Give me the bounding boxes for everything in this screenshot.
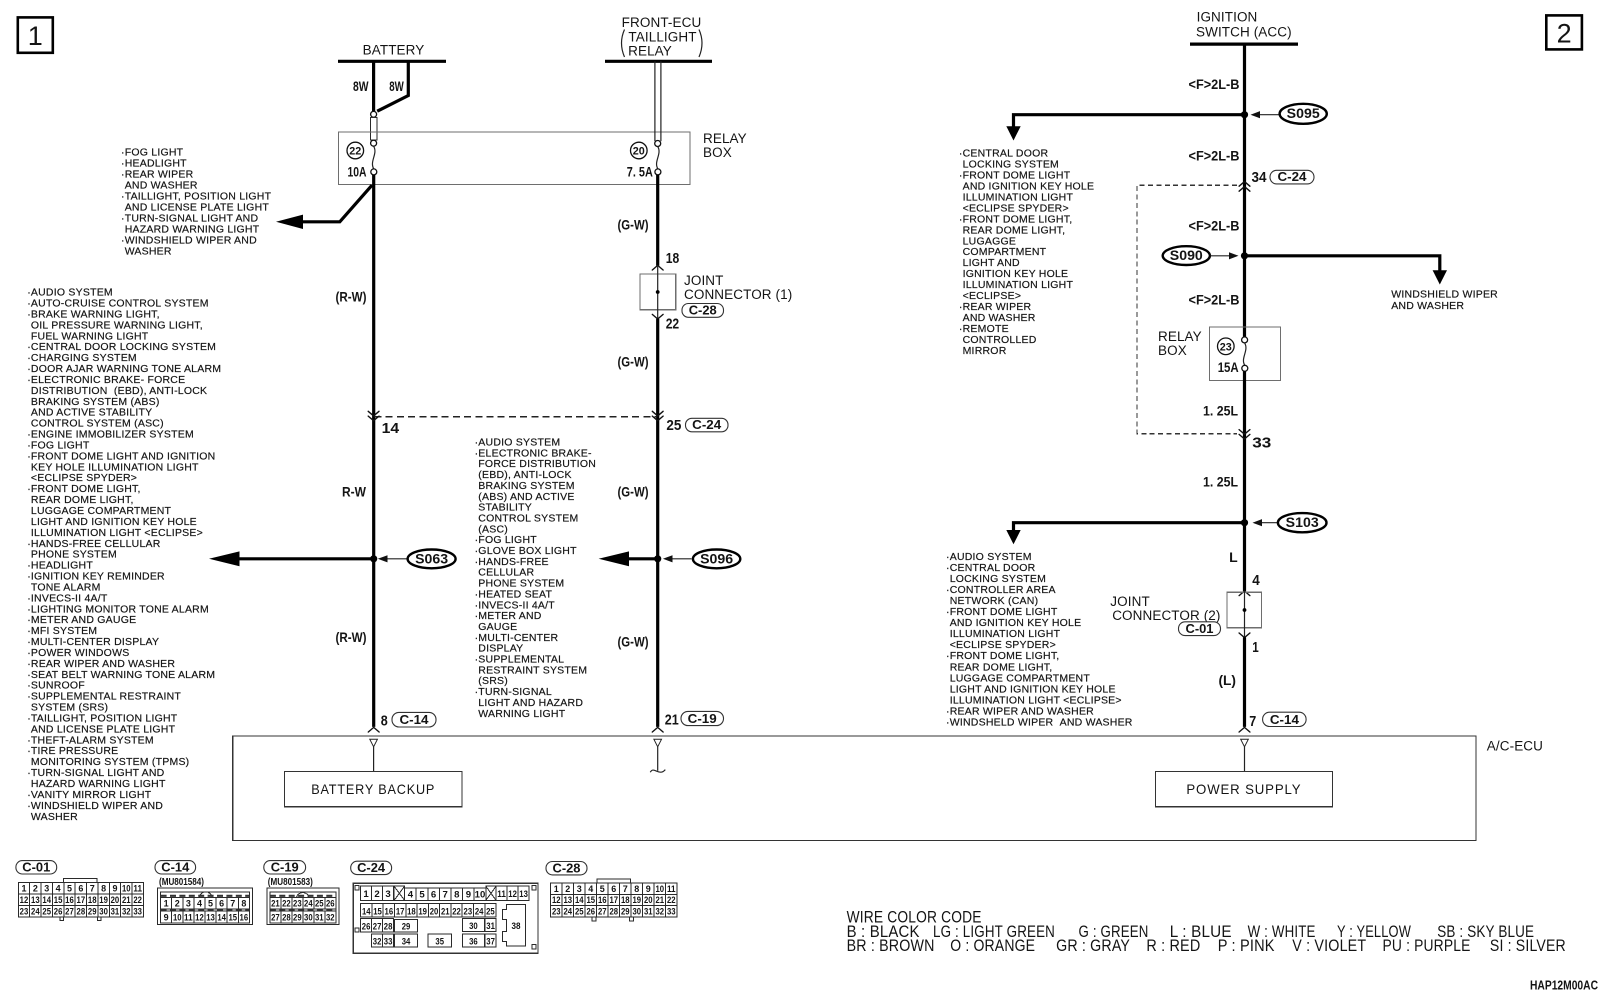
svg-text:14: 14	[382, 421, 400, 437]
wire battery drop right diagonal	[377, 61, 408, 111]
node splice S095 junction dot	[1241, 111, 1248, 118]
svg-text:7. 5A: 7. 5A	[627, 163, 653, 179]
svg-text:5: 5	[419, 889, 425, 900]
svg-text:23: 23	[1220, 341, 1232, 353]
svg-text:BATTERY: BATTERY	[363, 42, 425, 57]
svg-text:1: 1	[363, 889, 369, 900]
svg-text:RELAY: RELAY	[703, 131, 747, 146]
svg-text:21: 21	[271, 898, 280, 909]
wire 2L-B ignition vertical upper	[1243, 44, 1246, 339]
svg-text:30: 30	[304, 913, 313, 924]
svg-text:21: 21	[665, 712, 679, 728]
svg-text:29: 29	[293, 913, 302, 924]
svg-text:SI : SILVER: SI : SILVER	[1490, 937, 1566, 955]
svg-text:IGNITION: IGNITION	[1197, 10, 1258, 25]
svg-text:8: 8	[101, 884, 107, 895]
dashed harness boundary line	[375, 416, 657, 418]
svg-text:·WINDSHELD WIPER AND WASHER: ·WINDSHELD WIPER AND WASHER	[946, 717, 1133, 729]
svg-text:L: L	[1229, 549, 1238, 565]
svg-text:20: 20	[111, 895, 120, 906]
svg-text:23: 23	[293, 898, 302, 909]
svg-text:8: 8	[634, 884, 640, 895]
svg-text:(G-W): (G-W)	[618, 634, 649, 650]
svg-text:26: 26	[54, 906, 63, 917]
svg-text:19: 19	[99, 895, 108, 906]
svg-text:R-W: R-W	[342, 484, 367, 500]
wire battery drop left	[372, 61, 375, 111]
svg-text:RELAY: RELAY	[1158, 329, 1202, 344]
svg-text:S103: S103	[1286, 515, 1320, 530]
svg-text:38: 38	[512, 921, 522, 932]
svg-text:10: 10	[655, 884, 664, 895]
dashed junction block boundary	[1137, 185, 1237, 433]
svg-text:C-19: C-19	[271, 859, 299, 874]
svg-text:27: 27	[373, 921, 382, 932]
svg-text:10: 10	[475, 889, 486, 900]
svg-text:SWITCH (ACC): SWITCH (ACC)	[1196, 24, 1292, 39]
svg-text:R : RED: R : RED	[1146, 937, 1200, 955]
svg-text:10: 10	[173, 913, 182, 924]
fusible link rectangle	[370, 117, 376, 140]
svg-text:33: 33	[1252, 436, 1271, 452]
front-ecu bus bar	[605, 60, 712, 63]
svg-text:12: 12	[508, 889, 517, 900]
svg-text:18: 18	[88, 895, 97, 906]
svg-text:POWER SUPPLY: POWER SUPPLY	[1186, 781, 1301, 797]
svg-text:P : PINK: P : PINK	[1218, 937, 1275, 955]
svg-text:C-24: C-24	[692, 417, 722, 432]
svg-text:13: 13	[519, 889, 528, 900]
svg-text:33: 33	[667, 906, 676, 917]
svg-text:26: 26	[586, 906, 595, 917]
svg-text:33: 33	[384, 937, 393, 948]
node splice S103 junction dot	[1241, 519, 1248, 526]
svg-text:9: 9	[646, 884, 651, 895]
connector tag C-19 mid	[681, 711, 724, 725]
svg-text:<F>2L-B: <F>2L-B	[1189, 76, 1240, 92]
svg-text:22: 22	[349, 146, 361, 158]
svg-text:26: 26	[362, 921, 371, 932]
svg-text:11: 11	[184, 913, 193, 924]
relay box enclosure left	[339, 132, 691, 185]
svg-text:C-14: C-14	[161, 859, 190, 874]
fusible link lower circle	[371, 140, 377, 146]
svg-text:9: 9	[164, 913, 169, 924]
svg-text:(R-W): (R-W)	[336, 289, 367, 305]
svg-text:14: 14	[362, 906, 371, 917]
svg-text:S095: S095	[1287, 106, 1321, 121]
svg-text:34: 34	[1252, 170, 1267, 186]
svg-text:36: 36	[469, 937, 478, 948]
splice S090 pointer arrow	[1211, 255, 1230, 257]
AC-ECU pin socket middle with stub	[654, 739, 662, 747]
svg-text:(G-W): (G-W)	[618, 217, 649, 233]
svg-text:31: 31	[486, 921, 495, 932]
wire branch S090 to windshield wiper	[1245, 256, 1440, 271]
svg-text:BOX: BOX	[1158, 343, 1187, 358]
svg-text:2: 2	[33, 884, 38, 895]
battery backup box	[285, 772, 463, 807]
connector tag C-28	[682, 304, 724, 318]
wire G-W joint connector 1 to C-24	[656, 319, 659, 727]
fuse 23 element squiggle	[1243, 343, 1246, 365]
wire (L) to AC-ECU	[1243, 637, 1246, 727]
svg-text:23: 23	[552, 906, 561, 917]
svg-text:C-24: C-24	[357, 860, 386, 875]
AC-ECU pin socket left	[370, 739, 378, 747]
svg-text:JOINT: JOINT	[684, 273, 724, 288]
svg-text:22: 22	[282, 898, 291, 909]
svg-text:FRONT-ECU: FRONT-ECU	[622, 15, 702, 30]
svg-text:(MU801583): (MU801583)	[268, 877, 313, 888]
svg-text:32: 32	[655, 906, 664, 917]
svg-text:16: 16	[65, 895, 74, 906]
svg-text:7: 7	[623, 884, 628, 895]
svg-text:12: 12	[20, 895, 29, 906]
node splice S096 junction dot	[654, 555, 661, 562]
svg-text:21: 21	[441, 906, 450, 917]
svg-text:4: 4	[1252, 573, 1260, 589]
wire branch from fuse 22 to left loads	[298, 185, 372, 222]
fuse 23 upper circle	[1242, 337, 1248, 343]
pin 4 chevron	[1239, 591, 1250, 596]
splice S095 pointer arrow	[1258, 114, 1279, 116]
connector tag C-01 mid	[1179, 622, 1221, 636]
AC-ECU pin socket right	[1241, 739, 1249, 747]
fuse 20 number circle	[631, 142, 648, 159]
svg-text:WARNING LIGHT: WARNING LIGHT	[478, 708, 565, 720]
svg-text:C-14: C-14	[400, 712, 430, 727]
connector view C-14	[155, 861, 196, 874]
svg-text:1: 1	[164, 898, 170, 909]
svg-text:27: 27	[598, 906, 607, 917]
wire branch arrow S063 to left	[238, 557, 374, 560]
svg-text:18: 18	[407, 906, 416, 917]
svg-text:1: 1	[28, 21, 43, 51]
svg-text:JOINT: JOINT	[1110, 594, 1150, 609]
sheet number box 2	[1546, 15, 1582, 49]
front-ecu parentheses	[622, 30, 625, 58]
svg-text:13: 13	[206, 913, 215, 924]
svg-text:(R-W): (R-W)	[336, 629, 367, 645]
svg-text:30: 30	[632, 906, 641, 917]
svg-text:8W: 8W	[389, 78, 404, 94]
svg-text:2: 2	[374, 889, 379, 900]
wire R-W main left vertical	[372, 175, 375, 727]
svg-text:GR : GRAY: GR : GRAY	[1056, 937, 1130, 955]
svg-text:22: 22	[667, 895, 676, 906]
svg-text:16: 16	[385, 906, 394, 917]
svg-text:21: 21	[122, 895, 131, 906]
svg-text:24: 24	[304, 898, 313, 909]
svg-text:17: 17	[609, 895, 618, 906]
svg-text:6: 6	[78, 884, 83, 895]
svg-text:27: 27	[271, 913, 280, 924]
ignition bus bar	[1190, 42, 1298, 45]
svg-text:C-28: C-28	[689, 302, 717, 317]
svg-text:20: 20	[644, 895, 653, 906]
connector view C-24	[351, 861, 392, 874]
svg-text:18: 18	[621, 895, 630, 906]
joint connector 1 box C-28	[640, 274, 676, 310]
svg-text:PU : PURPLE: PU : PURPLE	[1383, 937, 1471, 955]
svg-text:4: 4	[56, 884, 62, 895]
splice S096 oval	[693, 550, 740, 569]
svg-text:11: 11	[667, 884, 676, 895]
svg-text:13: 13	[31, 895, 40, 906]
svg-text:14: 14	[575, 895, 584, 906]
svg-text:3: 3	[577, 884, 582, 895]
svg-text:24: 24	[563, 906, 572, 917]
svg-text:WASHER: WASHER	[31, 811, 78, 823]
svg-text:24: 24	[475, 906, 484, 917]
fuse 23 number circle	[1218, 338, 1235, 355]
connector tag C-24 right	[1270, 170, 1314, 184]
svg-text:3: 3	[44, 884, 49, 895]
connector chevrons at pin 25	[652, 411, 663, 416]
pin 7 chevron	[1239, 727, 1250, 732]
connector chevrons at pin 14	[368, 411, 379, 416]
AC-ECU enclosure	[233, 736, 1476, 840]
svg-text:2: 2	[565, 884, 570, 895]
svg-text:V : VIOLET: V : VIOLET	[1292, 937, 1366, 955]
wire branch S095 to left loads	[1014, 115, 1245, 127]
svg-text:19: 19	[418, 906, 427, 917]
svg-text:17: 17	[77, 895, 86, 906]
svg-text:25: 25	[575, 906, 584, 917]
svg-text:5: 5	[600, 884, 606, 895]
sheet number box 1	[18, 17, 53, 52]
svg-text:8: 8	[381, 713, 388, 729]
fuse 20 element squiggle	[657, 147, 660, 169]
svg-text:(MU801584): (MU801584)	[159, 877, 204, 888]
connector tag C-24 mid	[686, 418, 729, 432]
svg-text:27: 27	[65, 906, 74, 917]
svg-text:32: 32	[326, 913, 335, 924]
svg-text:CONNECTOR (1): CONNECTOR (1)	[684, 287, 792, 302]
svg-text:HAP12M00AC: HAP12M00AC	[1530, 978, 1598, 993]
svg-text:(G-W): (G-W)	[618, 354, 649, 370]
svg-text:14: 14	[217, 913, 226, 924]
svg-text:1: 1	[1252, 640, 1259, 656]
svg-text:WINDSHIELD WIPER: WINDSHIELD WIPER	[1391, 289, 1498, 301]
svg-text:22: 22	[666, 316, 680, 332]
svg-text:34: 34	[402, 937, 411, 948]
svg-text:5: 5	[67, 884, 73, 895]
svg-text:6: 6	[431, 889, 436, 900]
relay box enclosure right	[1210, 327, 1281, 380]
svg-text:28: 28	[77, 906, 86, 917]
svg-text:1. 25L: 1. 25L	[1203, 403, 1238, 419]
svg-text:19: 19	[632, 895, 641, 906]
svg-text:6: 6	[611, 884, 616, 895]
svg-text:29: 29	[88, 906, 97, 917]
splice S095 oval	[1280, 104, 1327, 124]
svg-text:1. 25L: 1. 25L	[1203, 474, 1238, 490]
svg-text:C-19: C-19	[688, 711, 717, 726]
svg-text:BATTERY BACKUP: BATTERY BACKUP	[311, 781, 435, 797]
svg-text:7: 7	[230, 898, 235, 909]
svg-text:2: 2	[175, 898, 180, 909]
svg-text:C-14: C-14	[1270, 712, 1300, 727]
connector view C-01	[16, 861, 57, 874]
svg-text:11: 11	[133, 884, 142, 895]
pin 18 chevron	[652, 265, 663, 270]
power supply box	[1155, 772, 1332, 807]
svg-text:29: 29	[621, 906, 630, 917]
svg-text:AND WASHER: AND WASHER	[1391, 300, 1464, 312]
pin 21 chevron	[652, 727, 663, 732]
svg-text:32: 32	[373, 937, 382, 948]
connector view C-28	[546, 862, 587, 875]
svg-text:17: 17	[396, 906, 405, 917]
svg-text:8: 8	[241, 898, 247, 909]
svg-text:3: 3	[186, 898, 191, 909]
svg-text:23: 23	[464, 906, 473, 917]
svg-text:23: 23	[20, 906, 29, 917]
svg-text:3: 3	[385, 889, 390, 900]
svg-text:15: 15	[373, 906, 382, 917]
svg-text:31: 31	[644, 906, 653, 917]
svg-text:BOX: BOX	[703, 145, 732, 160]
svg-text:<F>2L-B: <F>2L-B	[1189, 218, 1240, 234]
svg-text:12: 12	[195, 913, 204, 924]
svg-text:11: 11	[497, 889, 506, 900]
svg-text:O : ORANGE: O : ORANGE	[950, 937, 1035, 955]
fuse 20 lower circle	[655, 169, 661, 175]
svg-text:20: 20	[430, 906, 439, 917]
svg-text:7: 7	[90, 884, 95, 895]
svg-text:7: 7	[443, 889, 448, 900]
svg-text:2: 2	[1557, 19, 1572, 49]
svg-text:9: 9	[466, 889, 471, 900]
pin 34 chevrons	[1239, 182, 1250, 187]
svg-text:30: 30	[99, 906, 108, 917]
fuse 23 lower circle	[1242, 365, 1248, 371]
svg-text:12: 12	[552, 895, 561, 906]
svg-text:S063: S063	[415, 551, 449, 566]
svg-text:S096: S096	[700, 551, 734, 566]
svg-text:15: 15	[54, 895, 63, 906]
svg-text:(G-W): (G-W)	[618, 484, 649, 500]
svg-text:9: 9	[112, 884, 117, 895]
svg-text:C-28: C-28	[553, 860, 581, 875]
pin 22 chevron	[652, 314, 663, 319]
svg-text:5: 5	[208, 898, 214, 909]
svg-text:32: 32	[122, 906, 131, 917]
svg-text:33: 33	[133, 906, 142, 917]
svg-text:10A: 10A	[348, 163, 367, 179]
svg-text:10: 10	[122, 884, 131, 895]
svg-text:35: 35	[435, 937, 444, 948]
svg-text:<F>2L-B: <F>2L-B	[1189, 148, 1240, 164]
svg-text:BR : BROWN: BR : BROWN	[847, 937, 935, 955]
svg-text:18: 18	[666, 251, 680, 267]
svg-text:24: 24	[31, 906, 40, 917]
svg-text:1: 1	[554, 884, 560, 895]
svg-text:13: 13	[563, 895, 572, 906]
svg-text:A/C-ECU: A/C-ECU	[1487, 739, 1543, 754]
svg-text:37: 37	[486, 937, 495, 948]
wire branch arrow S096 to left	[627, 557, 658, 560]
fuse 22 lower circle	[371, 169, 377, 175]
svg-text:7: 7	[1249, 714, 1256, 730]
node splice S063 junction dot	[370, 555, 377, 562]
splice S063 pointer arrow	[386, 558, 407, 560]
front-ecu double wire	[654, 61, 656, 141]
svg-text:S090: S090	[1170, 248, 1203, 263]
svg-text:4: 4	[408, 889, 414, 900]
svg-text:4: 4	[588, 884, 594, 895]
connector tag C-14 left	[392, 712, 436, 727]
svg-text:25: 25	[666, 418, 681, 434]
svg-text:25: 25	[315, 898, 324, 909]
fuse 22 element squiggle	[372, 146, 375, 169]
svg-text:C-24: C-24	[1278, 169, 1308, 184]
wire branch S103 to left loads	[1014, 523, 1245, 531]
svg-text:31: 31	[111, 906, 120, 917]
svg-text:RELAY: RELAY	[628, 43, 672, 58]
svg-text:28: 28	[384, 921, 393, 932]
svg-text:(L): (L)	[1219, 672, 1237, 688]
svg-text:30: 30	[469, 921, 478, 932]
svg-text:TAILLIGHT: TAILLIGHT	[628, 29, 696, 44]
svg-text:31: 31	[315, 913, 324, 924]
svg-text:4: 4	[197, 898, 203, 909]
battery bus bar	[338, 60, 446, 63]
splice S096 pointer arrow	[671, 558, 692, 560]
svg-text:25: 25	[486, 906, 495, 917]
pin 1 chevron	[1239, 633, 1250, 638]
svg-text:20: 20	[633, 146, 645, 158]
joint connector 2 box C-01	[1227, 592, 1261, 628]
svg-text:16: 16	[240, 913, 249, 924]
splice S090 oval	[1163, 246, 1210, 265]
svg-text:15A: 15A	[1218, 359, 1239, 375]
svg-text:14: 14	[42, 895, 51, 906]
splice S063 oval	[408, 550, 456, 569]
connector tag C-14 right	[1263, 712, 1307, 726]
svg-text:28: 28	[282, 913, 291, 924]
svg-text:1: 1	[21, 884, 27, 895]
svg-text:22: 22	[133, 895, 142, 906]
svg-text:C-01: C-01	[1186, 621, 1214, 636]
connector view C-19	[264, 861, 306, 874]
svg-text:6: 6	[219, 898, 224, 909]
pin 33 chevrons	[1239, 430, 1250, 435]
svg-text:21: 21	[655, 895, 664, 906]
pin 8 chevron	[368, 727, 379, 732]
svg-text:8: 8	[454, 889, 460, 900]
wire 1.25L below relay box	[1243, 371, 1246, 591]
splice S103 pointer arrow	[1261, 522, 1278, 524]
svg-text:28: 28	[609, 906, 618, 917]
svg-text:WASHER: WASHER	[125, 245, 172, 257]
svg-text:15: 15	[228, 913, 237, 924]
svg-text:16: 16	[598, 895, 607, 906]
node battery junction circle	[371, 111, 377, 117]
svg-text:29: 29	[402, 922, 411, 933]
node splice S090 junction dot	[1241, 252, 1248, 259]
svg-text:C-01: C-01	[22, 859, 50, 874]
svg-text:<F>2L-B: <F>2L-B	[1189, 292, 1240, 308]
svg-text:MIRROR: MIRROR	[963, 345, 1007, 357]
fuse 20 upper circle	[655, 141, 661, 147]
svg-text:8W: 8W	[353, 78, 369, 94]
svg-text:22: 22	[452, 906, 461, 917]
svg-text:25: 25	[42, 906, 51, 917]
fuse 22 number circle	[347, 142, 364, 159]
